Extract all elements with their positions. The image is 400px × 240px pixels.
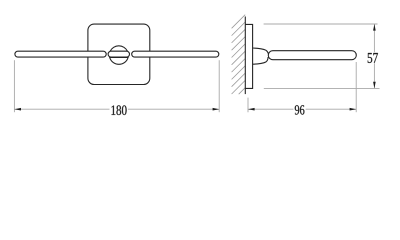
- extension line left (180): [13, 60, 15, 112]
- dimension line 96: [248, 108, 294, 110]
- wall plate (side): [245, 24, 252, 88]
- extension line top (57): [264, 23, 378, 25]
- arrow right (96): [350, 108, 357, 111]
- wall line: [244, 17, 246, 95]
- extension line right (180): [218, 60, 220, 112]
- stem flare top: [253, 48, 269, 54]
- arrow left (96): [248, 108, 255, 111]
- label 96: [295, 105, 305, 114]
- bar right segment: [132, 51, 219, 57]
- dimension line 57: [373, 24, 375, 52]
- dish top arc (behind bar): [110, 46, 127, 51]
- stem flare bottom: [253, 57, 269, 64]
- label 180: [112, 105, 127, 115]
- extension line bottom (57): [264, 87, 380, 89]
- rod (side profile): [268, 51, 356, 60]
- wall plate (rounded square): [88, 24, 150, 84]
- bar left segment: [15, 51, 106, 57]
- arrow left (180): [14, 108, 21, 111]
- arrow top (57): [373, 24, 376, 31]
- extension line left (96): [247, 98, 249, 113]
- dish bottom arc (below bar): [110, 58, 128, 65]
- extension line right (96): [355, 62, 357, 112]
- arrow right (180): [213, 108, 220, 111]
- dimension line 180: [14, 108, 109, 110]
- bar collar (sleeve over circle): [108, 51, 129, 57]
- label 57: [368, 53, 378, 63]
- arrow bottom (57): [373, 82, 376, 89]
- wall hatching: [232, 15, 246, 95]
